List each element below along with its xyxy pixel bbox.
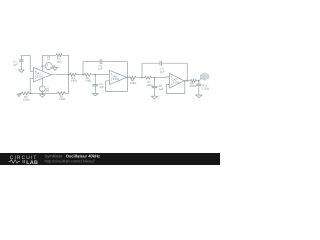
svg-text:LF356: LF356 (172, 81, 180, 84)
node speaker (198, 80, 200, 82)
source V1 (39, 78, 45, 93)
op-amp OA1 (33, 67, 51, 82)
wire OA1 output (51, 74, 69, 76)
resistor R8 (190, 79, 199, 82)
wire OA2 output (127, 77, 129, 79)
capacitor C5 (160, 61, 162, 66)
svg-text:1µF: 1µF (13, 63, 18, 66)
op-amp OA3 (170, 73, 185, 88)
svg-text:10kΩ: 10kΩ (130, 82, 136, 85)
svg-text:LAB: LAB (26, 160, 38, 165)
svg-text:560Ω: 560Ω (190, 85, 197, 88)
node C5 drop (186, 80, 188, 82)
ground (left end of bottom rail) (17, 93, 20, 96)
resistor R1 (58, 92, 69, 95)
logo capacitor bars (23, 160, 25, 163)
node loop join (184, 80, 186, 82)
resistor R3 (42, 54, 68, 57)
ground (below C3) (92, 93, 98, 96)
svg-text:Symbiose : Oscillateur 40kHz: Symbiose : Oscillateur 40kHz (45, 153, 101, 158)
capacitor C1 (19, 55, 24, 70)
svg-text:10kΩ: 10kΩ (146, 84, 152, 87)
wire OA1 - input down to bottom rail (30, 78, 33, 93)
svg-text:10kΩ: 10kΩ (71, 80, 77, 83)
capacitor C6 (152, 78, 158, 97)
ground (below speaker) (196, 95, 202, 98)
node X stage2 (95, 74, 97, 76)
svg-text:10kΩ: 10kΩ (23, 99, 29, 102)
op-amp OA2 (110, 70, 127, 84)
source V2 (45, 63, 52, 70)
wire feedback drop (68, 55, 70, 93)
svg-text:LF356: LF356 (35, 75, 43, 78)
node - riser join (29, 93, 31, 95)
wire C2 rail left (83, 61, 100, 63)
wire C2 drop to OA2 output (126, 62, 128, 78)
node OA1 output (68, 74, 70, 76)
node C6 junction (154, 77, 156, 79)
wire V2 to ground (52, 65, 55, 67)
svg-text:10kΩ: 10kΩ (85, 80, 91, 83)
wire C2 rail right (102, 61, 128, 63)
node OA2 output (127, 77, 129, 79)
wire riser stage3 (141, 63, 143, 77)
node V1 bottom (42, 93, 44, 95)
resistor R4 (70, 73, 85, 76)
resistor R6 (129, 76, 142, 79)
svg-text:1µF: 1µF (159, 88, 164, 91)
svg-text:0V: 0V (46, 90, 49, 93)
ground (below C6) (151, 96, 157, 99)
wire C5 drop (186, 63, 188, 81)
wire OA3 - feedback loop (166, 81, 185, 94)
svg-text:1µF: 1µF (160, 71, 165, 74)
svg-text:http://circuitlab.com/c/7dkaq7: http://circuitlab.com/c/7dkaq7 (45, 159, 95, 164)
resistor R2 (19, 92, 42, 95)
ground (below C1) (19, 70, 24, 73)
resistor R7 (142, 76, 170, 79)
logo resistor zigzag (9, 160, 20, 163)
wire C1 to op-amp OA1 + input (21, 55, 33, 71)
capacitor C3 (92, 75, 98, 94)
ground (below V1) (40, 93, 45, 97)
node riser stage3 (141, 77, 143, 79)
capacitor C2 (100, 59, 102, 64)
svg-text:1.2kΩ: 1.2kΩ (202, 87, 209, 90)
schematic labels (13, 56, 209, 102)
svg-text:1µF: 1µF (99, 86, 104, 89)
wire to source V2 (42, 65, 45, 67)
wire OA3 output (184, 80, 190, 82)
wire riser to C2 rail (82, 62, 84, 75)
capacitor C7 (speaker load) (196, 81, 201, 95)
wire OA1 V+ supply riser (41, 55, 43, 71)
wire C5 rail right (162, 62, 188, 64)
svg-text:10kΩ: 10kΩ (59, 98, 65, 101)
node V2 tap (42, 65, 44, 67)
svg-text:1kΩ: 1kΩ (57, 60, 62, 63)
svg-text:0V: 0V (47, 59, 50, 62)
wire OA2 - feedback loop (106, 77, 128, 91)
speaker SP1 icon (199, 73, 209, 81)
svg-text:LF356: LF356 (111, 78, 119, 81)
resistor R5 (84, 73, 110, 76)
node riser stage2 (82, 74, 84, 76)
wire bottom rail (42, 92, 57, 94)
wire C5 rail left (142, 62, 160, 64)
footer bar (0, 153, 220, 165)
svg-text:1µF: 1µF (98, 68, 103, 71)
ground (right of V2) (52, 66, 57, 70)
